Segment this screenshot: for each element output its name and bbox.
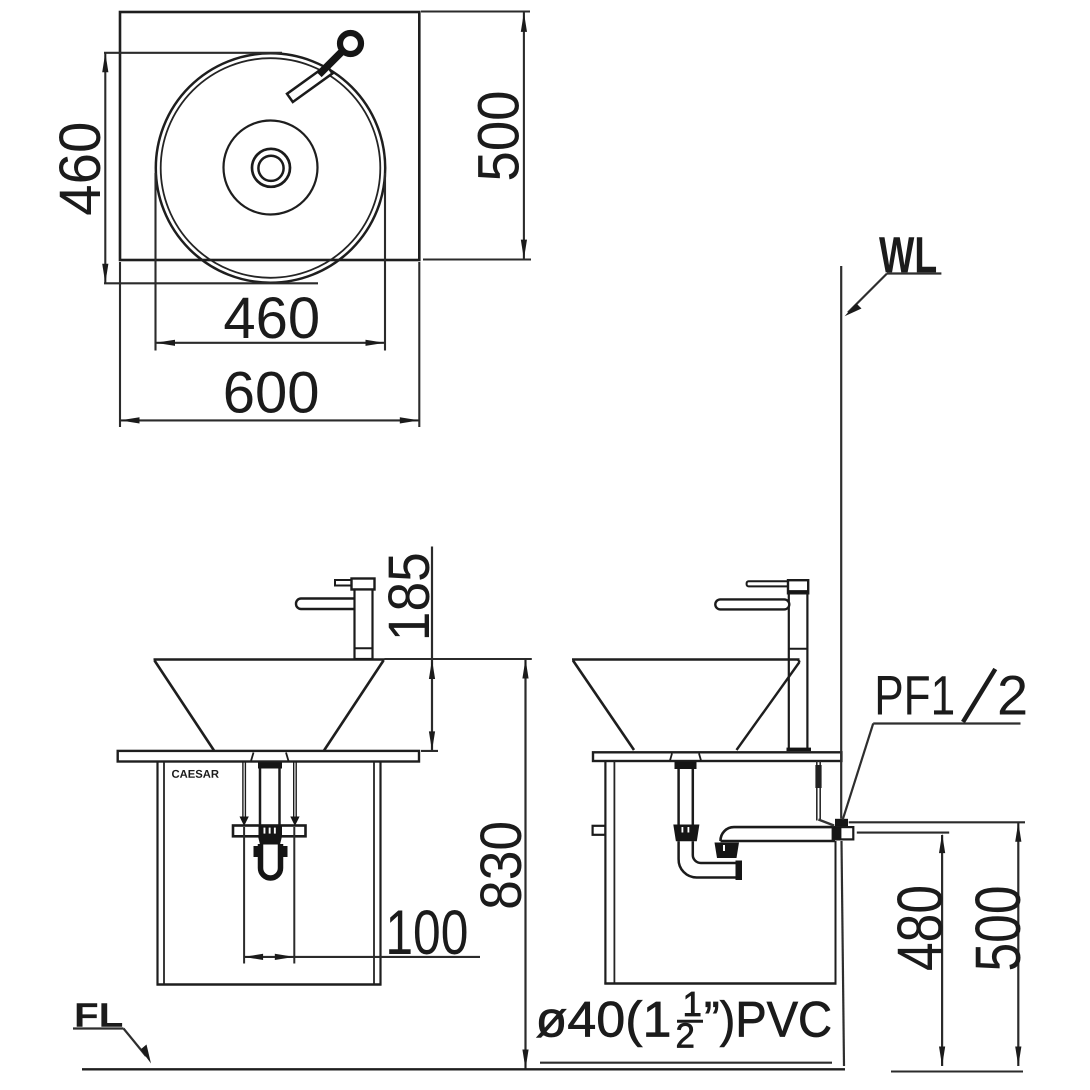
- drain nut below counter (front): [258, 762, 282, 768]
- PVC label underline leader: [540, 1062, 832, 1064]
- PVC pipe label: main text part 1: [537, 1000, 669, 1047]
- flange white tick 1: [264, 828, 266, 834]
- countertop rectangle (600x500 plan): [120, 12, 419, 260]
- horizontal drain pipe bottom line: [721, 840, 836, 843]
- dimension 460 left: arrow up: [102, 53, 108, 73]
- trap J-bend (front): [261, 844, 281, 878]
- wall flange bar: [233, 826, 306, 837]
- basin cone right side: [324, 661, 384, 751]
- faucet body (front): [355, 590, 373, 660]
- faucet body joint line (front): [355, 647, 373, 649]
- countertop slab (side): [593, 752, 841, 761]
- dimension 460 left: extension line top: [104, 52, 282, 54]
- dimension 460 left: extension line bottom: [104, 282, 318, 284]
- faucet riser right line (side): [806, 593, 808, 750]
- dimension 185: arrow up at rim: [429, 660, 435, 680]
- cabinet bottom (side): [604, 982, 836, 984]
- countertop slab (front): [118, 751, 419, 762]
- drain hole through counter (side) left diagonal: [670, 754, 672, 761]
- dimension 500 right: arrow down: [521, 240, 527, 260]
- svg-text:100: 100: [385, 898, 468, 968]
- dimension 500 right: extension top: [421, 10, 530, 12]
- wall fitting upper black: [835, 819, 848, 827]
- supply tube upper nut: [815, 765, 821, 788]
- faucet spout (side): [715, 599, 789, 609]
- left mounting bolt: [242, 762, 244, 817]
- CAESAR logo text: [172, 770, 219, 778]
- svg-text:600: 600: [223, 361, 320, 426]
- faucet lever outlined paddle (plan): [287, 65, 333, 102]
- dimension 600: extension left: [119, 262, 121, 427]
- WL label text: [879, 237, 936, 272]
- svg-text:2: 2: [997, 664, 1028, 727]
- faucet cap dark bottom edge (side): [788, 590, 808, 593]
- cabinet left outer edge (front): [156, 762, 158, 986]
- wall fitting lower outline: [833, 827, 854, 839]
- dimension 100: arrow left: [244, 954, 264, 960]
- pipe below trap nut left (side): [677, 841, 680, 859]
- pipe below trap nut right (side): [692, 841, 695, 855]
- bottom extension line for 480/500: [891, 1070, 1023, 1072]
- trap right nub: [283, 846, 288, 857]
- dimension 460 left: dimension line: [104, 53, 106, 283]
- dimension 480: arrow up: [939, 834, 945, 854]
- dimension 460 left: arrow down: [102, 264, 108, 284]
- PF1/2 slash: [963, 669, 995, 722]
- counter top extension line right: [421, 750, 438, 752]
- dimension 460 bottom: extension right: [384, 173, 386, 351]
- dimension 100: extension right: [293, 827, 295, 964]
- flange white tick 3: [274, 828, 276, 834]
- faucet base black (side): [787, 748, 812, 752]
- dimension 600: dimension line: [120, 419, 419, 421]
- flange white tick 2: [269, 828, 271, 834]
- cabinet right edge (side): [835, 841, 837, 984]
- svg-text:PF1: PF1: [874, 664, 955, 727]
- dimension 500 bottom right: arrow up: [1015, 822, 1021, 842]
- dimension 100: dimension line: [244, 956, 480, 958]
- svg-text:500: 500: [467, 91, 532, 182]
- drain hole through counter (side) right diagonal: [699, 754, 701, 761]
- faucet lever dark segment (plan): [319, 52, 342, 75]
- svg-text:460: 460: [48, 122, 113, 216]
- trap left nub: [254, 846, 259, 857]
- dimension 460 bottom: arrow right: [366, 340, 386, 346]
- PF1/2 underline: [873, 722, 1020, 724]
- rim extension line to dimension: [385, 658, 532, 660]
- dimension 830: dimension line: [524, 659, 526, 1069]
- drain inner circle: [258, 156, 283, 181]
- faucet lever (side): [747, 581, 789, 586]
- faucet riser joint line (side): [789, 648, 808, 650]
- dimension 100: extension left: [243, 827, 245, 964]
- dimension 460 bottom: dimension line: [156, 342, 386, 344]
- faucet supply tube right line (side): [819, 761, 821, 821]
- rim right corner (side): [798, 660, 801, 663]
- drain hole through counter right diagonal: [286, 753, 289, 762]
- faucet supply tube left line (side): [816, 761, 818, 821]
- dimension 100: arrow right: [275, 954, 295, 960]
- basin cone left side: [155, 661, 215, 751]
- basin cone left side (side): [573, 661, 634, 751]
- wall fitting lower black half: [833, 827, 842, 839]
- dimension 500 bottom right: extension top: [849, 821, 1025, 823]
- trap nut (side): [673, 825, 699, 842]
- WL leader line: [848, 274, 887, 313]
- cabinet left outer edge (side): [604, 761, 606, 985]
- dimension 500 right: extension bottom: [423, 258, 531, 260]
- basin cone right side (side): [737, 662, 800, 750]
- tailpiece right line (side): [692, 769, 695, 825]
- elbow end cap: [736, 861, 743, 881]
- basin middle circle: [224, 121, 318, 215]
- dimension 600: extension right: [418, 262, 420, 427]
- drain outer circle: [252, 149, 290, 187]
- faucet cap (front): [352, 579, 375, 590]
- dimension 500 bottom right: dimension line: [1017, 822, 1019, 1066]
- FL underline: [73, 1027, 124, 1029]
- dimension 500 right: arrow up: [521, 12, 527, 32]
- cabinet left inner edge (front): [163, 762, 165, 985]
- right mounting bolt: [293, 762, 295, 817]
- dimension 185: dimension line: [431, 547, 433, 751]
- wall line WL lower to floor: [842, 841, 845, 1066]
- drain nut below counter (side): [675, 762, 697, 770]
- FL leader line: [124, 1029, 147, 1057]
- dimension 830: arrow up: [522, 659, 528, 679]
- PVC fraction denominator 2: [677, 1023, 693, 1047]
- cabinet right inner edge (front): [373, 762, 375, 985]
- horizontal pipe left end curve: [720, 827, 734, 841]
- svg-text:480: 480: [884, 885, 956, 971]
- floor line: [82, 1068, 845, 1070]
- horizontal drain pipe top line: [734, 826, 835, 829]
- tailpiece pipe right line (front): [278, 769, 281, 826]
- basin inner rim circle: [161, 58, 381, 278]
- dimension 600: arrow left: [120, 417, 140, 423]
- dimension 185: arrow down at counter: [429, 731, 435, 751]
- dimension 460 bottom: extension left: [154, 173, 156, 351]
- faucet cap (side): [788, 580, 808, 593]
- dimension 830: arrow down: [522, 1050, 528, 1070]
- tailpiece pipe left line (front): [259, 769, 262, 826]
- elbow inner curve: [693, 855, 737, 863]
- PVC label closing part: [706, 1000, 830, 1047]
- faucet spout (front): [296, 599, 360, 610]
- svg-text:830: 830: [469, 821, 534, 910]
- flange tab on cabinet front (side): [593, 826, 606, 835]
- dimension 500 bottom right: arrow down: [1015, 1047, 1021, 1067]
- dimension 460 bottom: arrow left: [156, 340, 176, 346]
- trap nut white tick b: [688, 827, 690, 833]
- dimension 480: dimension line: [941, 835, 943, 1066]
- faucet knob (plan): [340, 33, 361, 54]
- PF1/2 leader line: [843, 724, 874, 820]
- PVC fraction numerator 1: [685, 992, 700, 1016]
- svg-text:460: 460: [223, 286, 320, 351]
- WL underline: [887, 272, 941, 274]
- elbow outer curve to horizontal stub: [679, 859, 737, 878]
- FL leader arrowhead: [141, 1045, 152, 1064]
- wall line WL upper: [840, 266, 842, 819]
- WL leader arrowhead: [845, 303, 862, 316]
- union nut (side): [715, 843, 740, 859]
- supply tube foot: [818, 820, 834, 826]
- dimension 480: arrow down: [939, 1047, 945, 1067]
- tailpiece left line (side): [677, 769, 680, 825]
- trap nut (front): [258, 836, 282, 844]
- svg-text:185: 185: [377, 552, 442, 641]
- cabinet right outer edge (front): [379, 762, 381, 986]
- dimension 500 right: dimension line: [523, 12, 525, 260]
- basin rim line (side): [572, 658, 800, 661]
- PVC fraction bar: [677, 1020, 703, 1023]
- cabinet bottom (front): [157, 983, 382, 985]
- basin rim line: [154, 658, 385, 661]
- union nut white tick: [723, 845, 725, 851]
- FL label text: [77, 1003, 122, 1027]
- drain hole through counter left diagonal: [251, 753, 254, 762]
- basin outer circle: [156, 53, 385, 282]
- cabinet left inner edge (side): [613, 761, 615, 984]
- dimension 600: arrow right: [400, 417, 420, 423]
- svg-text:500: 500: [962, 886, 1034, 972]
- faucet lever (front): [335, 580, 352, 586]
- flange center black section: [259, 826, 283, 837]
- trap nut white tick a: [682, 827, 684, 833]
- faucet riser left line (side): [788, 593, 790, 750]
- dimension 480: extension top: [857, 832, 949, 834]
